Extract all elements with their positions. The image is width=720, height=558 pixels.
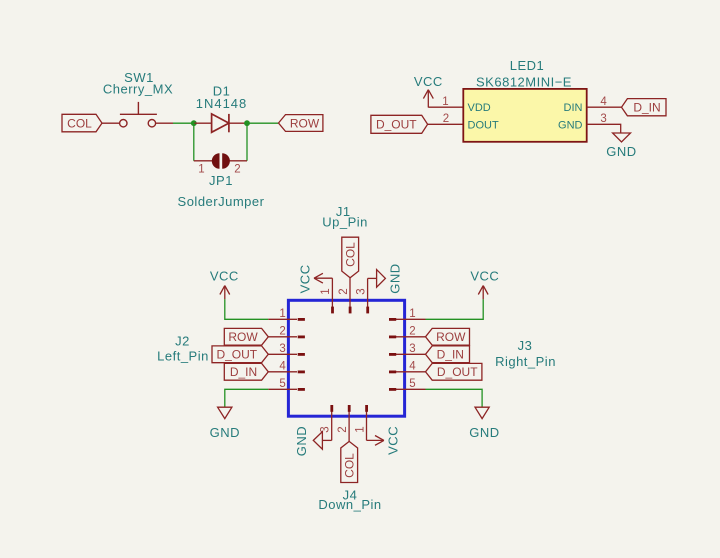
wire LED1 GND down — [587, 124, 621, 133]
global label D_OUT (J2) — [212, 346, 268, 363]
pin J4-2 — [348, 410, 350, 442]
wire VCC to LED1 VDD — [428, 106, 463, 108]
wire LED1 DIN to D_IN — [587, 106, 622, 108]
svg-text:GND: GND — [558, 119, 583, 131]
wire J3 pin5 to GND — [426, 389, 483, 407]
pin D1-anode — [194, 122, 212, 124]
pin JP1-2 — [229, 160, 247, 162]
svg-text:VCC: VCC — [298, 264, 313, 293]
global label ROW (J3) — [426, 328, 470, 345]
power symbol VCC at J3 pin1 — [470, 269, 499, 300]
wire SW1 to D1 — [173, 122, 194, 124]
switch SW1 contact 1 — [120, 120, 127, 127]
svg-text:DOUT: DOUT — [468, 119, 499, 131]
connector body (shared square) — [288, 300, 404, 416]
pin J1-3 — [367, 278, 369, 307]
svg-text:3: 3 — [320, 426, 332, 432]
svg-text:Up_Pin: Up_Pin — [322, 215, 368, 230]
svg-text:DIN: DIN — [564, 102, 583, 114]
svg-text:ROW: ROW — [436, 330, 466, 344]
switch SW1 contact 2 — [148, 120, 155, 127]
svg-text:4: 4 — [600, 96, 607, 108]
svg-text:Down_Pin: Down_Pin — [318, 497, 381, 512]
svg-text:4: 4 — [279, 361, 286, 373]
svg-text:COL: COL — [67, 117, 92, 131]
svg-text:VCC: VCC — [385, 426, 400, 455]
svg-text:Cherry_MX: Cherry_MX — [103, 82, 173, 97]
power symbol GND at J4 pin3 — [294, 426, 332, 456]
power symbol GND at J1 pin3 — [368, 263, 403, 293]
global label D_OUT (J3) — [426, 363, 482, 380]
svg-text:VCC: VCC — [414, 74, 443, 89]
wire left leg of jumper — [193, 123, 195, 161]
svg-text:5: 5 — [409, 378, 415, 390]
pin JP1-1 — [194, 160, 213, 162]
svg-text:VCC: VCC — [470, 269, 499, 284]
svg-text:2: 2 — [337, 426, 349, 432]
power symbol GND at J3 pin5 — [469, 407, 499, 440]
wire J2 pin5 to GND — [225, 389, 268, 407]
svg-text:D_OUT: D_OUT — [216, 348, 257, 362]
svg-text:1: 1 — [320, 288, 332, 294]
svg-text:1: 1 — [279, 308, 285, 320]
svg-text:D_IN: D_IN — [633, 101, 660, 115]
wire VCC to J2 pin1 — [225, 299, 268, 319]
svg-text:D_OUT: D_OUT — [437, 365, 478, 379]
svg-text:GND: GND — [210, 425, 240, 440]
svg-text:SK6812MINI−E: SK6812MINI−E — [476, 74, 572, 89]
svg-text:ROW: ROW — [290, 117, 320, 131]
svg-text:GND: GND — [469, 425, 499, 440]
svg-text:JP1: JP1 — [209, 173, 233, 188]
svg-text:2: 2 — [409, 326, 415, 338]
pin J1-2 — [349, 278, 351, 307]
svg-text:J3: J3 — [518, 338, 533, 353]
wire D1 to ROW — [247, 122, 278, 124]
LED1 body — [463, 89, 586, 142]
wire D_OUT to LED1 DOUT — [428, 123, 464, 125]
pin J3-1 — [396, 318, 426, 320]
global label COL — [62, 114, 102, 132]
svg-text:VCC: VCC — [210, 269, 239, 284]
power symbol GND at J2 pin5 — [210, 407, 240, 440]
svg-text:LED1: LED1 — [510, 58, 545, 73]
pin D1-cathode — [229, 122, 247, 124]
svg-text:1: 1 — [198, 163, 204, 175]
svg-text:2: 2 — [338, 288, 350, 294]
svg-text:3: 3 — [279, 343, 285, 355]
junction node A — [191, 120, 197, 126]
wire VCC to J3 pin1 — [426, 299, 484, 319]
svg-text:D_IN: D_IN — [437, 348, 464, 362]
global label ROW — [279, 115, 323, 132]
svg-text:ROW: ROW — [228, 330, 258, 344]
power symbol VCC at J1 pin1 — [298, 264, 333, 293]
power symbol VCC at J2 pin1 — [210, 269, 239, 300]
svg-text:SolderJumper: SolderJumper — [178, 194, 265, 209]
svg-text:Left_Pin: Left_Pin — [157, 349, 209, 364]
svg-text:3: 3 — [600, 113, 606, 125]
pin SW1-2 — [156, 122, 173, 124]
svg-text:1N4148: 1N4148 — [196, 96, 248, 111]
pin J3-4 — [396, 371, 426, 373]
pin J1-1 — [331, 278, 333, 307]
global label ROW (J2) — [224, 328, 268, 345]
pin J3-2 — [396, 336, 426, 338]
pin J2-1 — [268, 318, 297, 320]
global label COL (J1) — [342, 237, 359, 278]
svg-text:J2: J2 — [175, 334, 190, 349]
junction node B — [244, 120, 250, 126]
pin J3-3 — [396, 353, 426, 355]
global label COL (J4) — [341, 441, 358, 482]
power symbol VCC at LED1 — [414, 74, 443, 108]
svg-text:COL: COL — [343, 453, 357, 478]
svg-text:D_IN: D_IN — [230, 365, 257, 379]
svg-text:Right_Pin: Right_Pin — [495, 354, 556, 369]
wire COL to SW1 — [102, 122, 119, 124]
pin J2-5 — [268, 388, 297, 390]
solder jumper JP1 — [212, 153, 230, 168]
svg-text:3: 3 — [409, 343, 415, 355]
svg-text:VDD: VDD — [468, 102, 491, 114]
pin J3-5 — [396, 388, 426, 390]
svg-text:4: 4 — [409, 361, 416, 373]
svg-text:GND: GND — [606, 144, 636, 159]
global label D_IN (J3) — [426, 346, 470, 363]
wire right leg of jumper — [246, 123, 248, 161]
svg-text:COL: COL — [344, 242, 358, 267]
svg-text:GND: GND — [388, 263, 403, 293]
svg-text:1: 1 — [442, 96, 448, 108]
pin J2-4 — [268, 371, 297, 373]
svg-text:2: 2 — [234, 163, 240, 175]
svg-text:1: 1 — [409, 308, 415, 320]
pin J2-3 — [268, 353, 297, 355]
svg-text:5: 5 — [279, 378, 285, 390]
svg-text:2: 2 — [279, 326, 285, 338]
switch SW1 actuator — [120, 102, 157, 114]
svg-text:GND: GND — [294, 426, 309, 456]
global label D_OUT — [371, 115, 428, 133]
pin J2-2 — [268, 336, 297, 338]
diode D1 — [212, 114, 229, 132]
pin J4-3 — [331, 410, 333, 441]
power symbol VCC at J4 pin1 — [367, 426, 401, 455]
svg-text:1: 1 — [354, 426, 366, 432]
pin J4-1 — [366, 410, 368, 441]
global label D_IN (J2) — [224, 363, 268, 380]
svg-text:D_OUT: D_OUT — [376, 118, 417, 132]
svg-text:2: 2 — [443, 113, 449, 125]
svg-text:3: 3 — [355, 288, 367, 294]
global label D_IN — [622, 99, 667, 116]
power symbol GND at LED1 — [606, 133, 636, 159]
